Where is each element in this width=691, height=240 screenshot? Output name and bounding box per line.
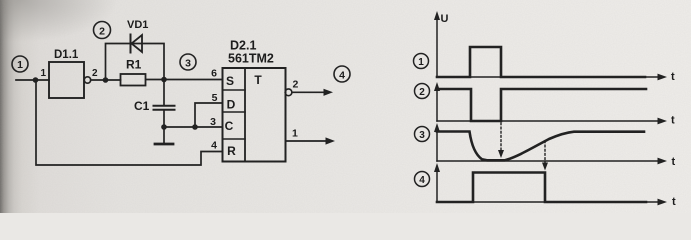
- svg-text:t: t: [672, 156, 676, 168]
- junction diode branch left: [103, 77, 109, 83]
- svg-text:VD1: VD1: [127, 19, 148, 31]
- capacitor C1: [134, 80, 175, 143]
- axis row 4: [434, 163, 676, 208]
- node 4 (circled label): [334, 66, 350, 82]
- svg-text:1: 1: [418, 57, 424, 68]
- wire cap node to C input: [164, 126, 223, 128]
- ground: [155, 143, 173, 146]
- svg-text:R1: R1: [126, 58, 142, 72]
- svg-text:t: t: [671, 115, 675, 127]
- svg-text:1: 1: [17, 59, 23, 71]
- svg-text:D: D: [227, 98, 236, 112]
- svg-text:t: t: [671, 71, 675, 83]
- svg-text:3: 3: [210, 116, 216, 128]
- svg-text:2: 2: [92, 68, 98, 79]
- row 4 circled label: [415, 172, 430, 187]
- svg-text:U: U: [441, 13, 449, 25]
- svg-text:2: 2: [99, 26, 105, 38]
- wire input node to R input: [36, 80, 223, 165]
- svg-text:C: C: [225, 119, 234, 133]
- svg-text:5: 5: [212, 92, 218, 104]
- node 2 (circled label): [94, 22, 111, 39]
- svg-text:4: 4: [211, 140, 217, 152]
- svg-text:2: 2: [419, 87, 425, 98]
- svg-text:1: 1: [292, 128, 298, 140]
- wire R1 to S input: [146, 79, 223, 81]
- svg-text:1: 1: [40, 68, 46, 79]
- diode VD1: [127, 19, 148, 53]
- axis row 3: [434, 123, 676, 168]
- svg-text:2: 2: [293, 79, 299, 91]
- gate D1.1: [49, 62, 84, 98]
- axis row 2: [434, 82, 675, 127]
- inversion bubble of D1.1: [84, 77, 90, 83]
- wire output 2 with arrow: [292, 91, 325, 93]
- junction R1 right / cap top: [161, 77, 167, 83]
- wire input to D1.1: [16, 79, 49, 81]
- svg-text:3: 3: [419, 130, 425, 141]
- svg-text:C1: C1: [134, 99, 150, 113]
- svg-text:D2.1: D2.1: [230, 39, 256, 53]
- dotted marker line 1: [500, 123, 502, 151]
- waveform 1: [437, 47, 645, 77]
- waveform 3 (RC discharge/recharge): [437, 132, 644, 161]
- flip-flop D2.1 561TM2: [223, 39, 286, 162]
- svg-text:D1.1: D1.1: [54, 49, 79, 61]
- junction D branch: [192, 124, 198, 130]
- row 3 circled label: [415, 127, 430, 142]
- row 1 circled label: [414, 54, 429, 69]
- resistor R1: [121, 74, 146, 86]
- junction cap bottom: [161, 124, 167, 130]
- svg-text:S: S: [226, 74, 234, 88]
- row 2 circled label: [415, 84, 430, 99]
- axis U / row 1: [434, 11, 675, 83]
- svg-text:R: R: [227, 144, 236, 158]
- node 3 (circled label): [180, 54, 196, 70]
- wire diode bypass branch: [106, 44, 165, 81]
- svg-text:T: T: [254, 73, 262, 87]
- svg-text:6: 6: [211, 68, 217, 80]
- junction input node: [33, 77, 39, 83]
- waveform 4: [437, 173, 646, 203]
- wire output 1 with arrow: [286, 140, 328, 142]
- svg-text:561TM2: 561TM2: [228, 52, 274, 66]
- svg-text:3: 3: [185, 58, 191, 70]
- wire to D input: [195, 103, 223, 127]
- dotted marker line 2: [544, 141, 546, 163]
- svg-text:t: t: [672, 196, 676, 208]
- waveform 2: [437, 89, 646, 121]
- wire gate output to R1: [91, 79, 121, 81]
- svg-text:4: 4: [419, 175, 425, 186]
- output bubble pin 2: [285, 89, 292, 96]
- node 1 (circled label): [12, 56, 28, 72]
- svg-text:4: 4: [339, 70, 345, 82]
